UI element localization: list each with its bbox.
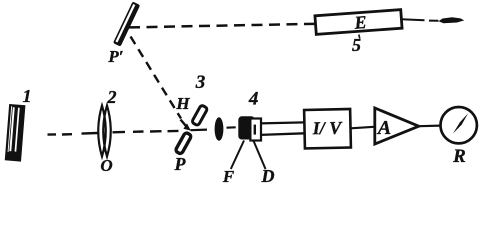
plate P xyxy=(175,132,192,154)
wire dash ellipse to detector xyxy=(227,126,236,128)
wire beam dashes lens to junction xyxy=(113,131,179,132)
arrow output xyxy=(439,17,465,23)
pointer line D xyxy=(254,141,266,169)
amplifier A xyxy=(375,108,419,144)
wire beam dashes source to lens xyxy=(48,133,98,135)
meter R xyxy=(441,107,477,143)
svg-text:1: 1 xyxy=(23,86,32,106)
svg-text:O: O xyxy=(100,156,112,175)
detector filter body F xyxy=(238,116,255,139)
I/V converter box U1 xyxy=(304,109,351,148)
svg-text:I/ V: I/ V xyxy=(312,118,344,139)
node junction axis segment xyxy=(191,129,208,132)
svg-text:A: A xyxy=(376,117,391,139)
lens F (filled ellipse) xyxy=(215,117,224,141)
svg-text:3: 3 xyxy=(195,72,206,93)
svg-text:F: F xyxy=(222,167,235,184)
svg-text:5: 5 xyxy=(352,35,361,55)
svg-text:E: E xyxy=(353,12,367,33)
wire I/V to amplifier xyxy=(351,127,374,129)
svg-text:D: D xyxy=(261,166,275,184)
pointer line F xyxy=(231,141,244,170)
wire E box to arrow xyxy=(402,19,439,21)
wire amplifier to meter xyxy=(419,124,441,127)
svg-text:2: 2 xyxy=(107,87,117,107)
detector window D xyxy=(250,119,261,141)
svg-text:4: 4 xyxy=(248,89,259,110)
junction arrow xyxy=(181,120,191,131)
svg-text:R: R xyxy=(452,146,466,167)
light source 1 (hatched block) xyxy=(5,104,26,162)
wire beam mirror to junction (dashed diagonal) xyxy=(131,37,182,119)
mirror P' xyxy=(113,1,140,46)
wire detector to I/V (top) xyxy=(261,122,305,123)
label 5 xyxy=(352,35,361,56)
wire beam mirror to E box (dashed) xyxy=(129,24,316,28)
lens O xyxy=(98,106,111,157)
E box (modulator 5) xyxy=(315,9,402,35)
svg-text:P: P xyxy=(174,154,187,174)
wire detector to I/V (bottom) xyxy=(261,133,305,135)
plate H xyxy=(192,105,208,126)
svg-text:H: H xyxy=(175,94,190,113)
svg-text:P′: P′ xyxy=(107,47,123,66)
